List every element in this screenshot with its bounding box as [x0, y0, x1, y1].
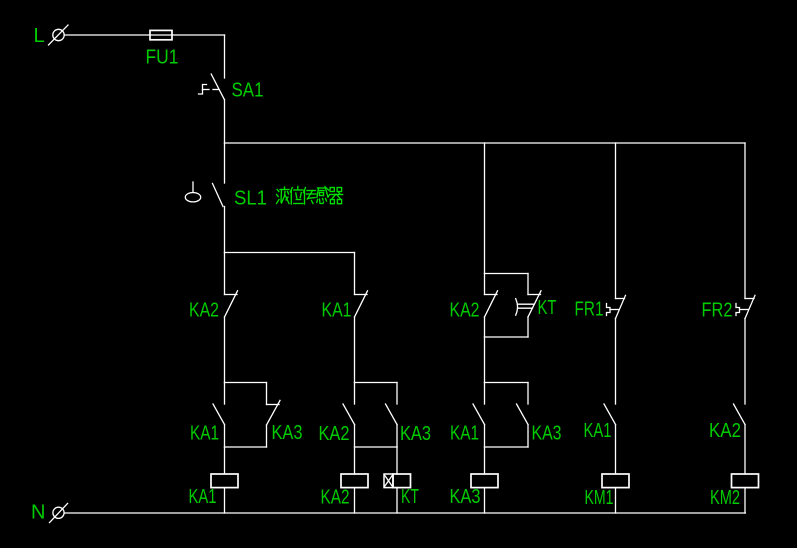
wire coil KA1 to N bus	[224, 488, 226, 513]
contact KA1 (NO) group3 left	[473, 404, 485, 425]
svg-text:KT: KT	[401, 486, 419, 508]
coil KA2	[341, 474, 368, 488]
wire KA3 NC to group1 bottom	[266, 425, 268, 447]
bottom bus N	[64, 512, 745, 514]
group3 top branch	[485, 382, 529, 384]
svg-text:FR2: FR2	[702, 300, 733, 322]
contact KA3 (NO) group2 right	[386, 404, 398, 425]
svg-text:L: L	[34, 25, 45, 47]
svg-text:KA1: KA1	[450, 423, 479, 445]
group2 bottom branch	[355, 446, 398, 448]
svg-text:SA1: SA1	[232, 80, 264, 102]
svg-text:KA2: KA2	[450, 300, 480, 322]
wire group2 to coil KT	[396, 447, 398, 474]
wire KA2 contact to group1	[224, 317, 226, 383]
char 传	[304, 188, 317, 205]
terminal N	[50, 503, 68, 522]
coil KT	[384, 474, 411, 488]
svg-text:KA1: KA1	[189, 486, 217, 508]
svg-text:N: N	[31, 502, 45, 524]
svg-text:KA1: KA1	[584, 420, 612, 442]
terminal L	[49, 25, 69, 45]
svg-text:KA2: KA2	[189, 300, 219, 322]
svg-text:KA3: KA3	[450, 486, 481, 508]
wire KA1 NO to coil KM1	[615, 425, 617, 475]
sensor SL1	[185, 182, 223, 207]
wire top bus down to FR1	[615, 143, 617, 299]
wire KA1 NO to group1 bottom	[224, 425, 226, 448]
group3 bottom branch	[485, 446, 529, 448]
wire KA3 NO to group2 bottom	[396, 425, 398, 448]
node split KA2/KT top	[485, 273, 529, 275]
coil KM2	[732, 474, 759, 488]
svg-text:KA3: KA3	[532, 423, 562, 445]
svg-text:FU1: FU1	[146, 47, 179, 69]
wire group1 to coil KA1	[224, 447, 226, 474]
wire KA1 contact to group2	[354, 317, 356, 383]
wire SA1 to top bus	[224, 100, 226, 144]
contact FR2 (NC thermal)	[736, 295, 755, 318]
group1 bottom branch	[225, 446, 267, 448]
svg-text:KA3: KA3	[272, 422, 303, 444]
coil KA1	[211, 474, 238, 488]
wire group1 right into KA3	[266, 383, 268, 405]
svg-text:KA2: KA2	[319, 423, 350, 445]
wire coil KM1 to N bus	[615, 488, 617, 513]
wire SL1 to branch node	[224, 207, 226, 253]
contact KA1 (NC) row1 col2	[355, 291, 368, 317]
char 液	[277, 187, 290, 204]
switch SA1	[199, 74, 225, 100]
wire KA1 NO to group3 bottom	[484, 425, 486, 448]
label 液位传感器 (hand-drawn strokes)	[277, 187, 343, 205]
contact KA1 (NO) group1 left	[213, 404, 225, 425]
top bus	[225, 142, 746, 144]
char 位	[290, 187, 303, 205]
coil KM1	[602, 474, 629, 488]
node join KA2/KT bottom	[485, 336, 529, 338]
wire group1 left into KA1	[224, 383, 226, 405]
svg-text:KM1: KM1	[585, 487, 614, 509]
wire FR2 to KA2 contact	[744, 319, 746, 405]
wire group3 to coil KA3	[484, 447, 486, 474]
group1 top branch	[225, 382, 267, 384]
wire coil KA3 to N bus	[484, 488, 486, 513]
contact KA2 (NC) row1 col3	[485, 291, 498, 317]
wire top corner down to SA1	[224, 35, 226, 78]
wire top bus down to FR2	[744, 143, 746, 299]
wire group3 right into KA3	[527, 383, 529, 405]
svg-text:FR1: FR1	[575, 299, 604, 321]
group2 top branch	[355, 382, 398, 384]
svg-text:KA2: KA2	[709, 420, 741, 442]
wire coil KT to N bus	[396, 488, 398, 513]
contact FR1 (NC thermal)	[607, 295, 626, 318]
svg-text:KM2: KM2	[710, 487, 740, 509]
contact KA2 (NC) row1 col1	[225, 291, 238, 317]
svg-text:SL1: SL1	[234, 188, 267, 210]
wire KT to bottom node	[527, 317, 529, 337]
wire group2 to coil KA2	[354, 447, 356, 474]
wire group2 right into KA3	[396, 383, 398, 405]
svg-text:KA2: KA2	[321, 487, 350, 509]
wire branch down to KA1 contact	[354, 253, 356, 295]
coil KA3	[471, 474, 498, 488]
contact KT (NC delayed)	[516, 291, 541, 317]
wire coil KA2 to N bus	[354, 488, 356, 513]
wire into KA2 contact	[484, 274, 486, 295]
svg-text:KA1: KA1	[322, 300, 352, 322]
contact KA3 (NO) group3 right	[517, 404, 529, 425]
branch wire to column 2	[225, 252, 355, 254]
contact KA2 (NO) group2 left	[343, 404, 355, 425]
wire FR1 to KA1 contact	[615, 319, 617, 405]
wire coil KM2 to N bus	[744, 488, 746, 513]
wire branch down to KA2 contact	[224, 253, 226, 295]
wire group2 left into KA2	[354, 383, 356, 405]
svg-text:KA3: KA3	[400, 423, 431, 445]
wire KA2 to bottom node	[484, 317, 486, 337]
wire top bus down to KA2/KT group	[484, 143, 486, 274]
fuse FU1	[150, 30, 172, 39]
contact KA3 (NC) group1 right	[267, 400, 281, 425]
wire KA2 NO to coil KM2	[744, 425, 746, 475]
wire KA3 NO to group3 bottom	[527, 425, 529, 448]
wire group3 left into KA1	[484, 383, 486, 405]
contact KA2 (NO) col5	[734, 404, 746, 425]
svg-text:KT: KT	[538, 297, 557, 319]
contact KA1 (NO) col4	[604, 404, 616, 425]
wire node to group3	[484, 337, 486, 383]
svg-text:KA1: KA1	[190, 423, 219, 445]
wire bus down to SL1	[224, 143, 226, 183]
wire into KT contact	[527, 274, 529, 295]
wire KA2 NO to group2 bottom	[354, 425, 356, 448]
wire L to corner	[64, 34, 224, 36]
char 器	[330, 188, 343, 204]
char 感	[317, 187, 329, 204]
